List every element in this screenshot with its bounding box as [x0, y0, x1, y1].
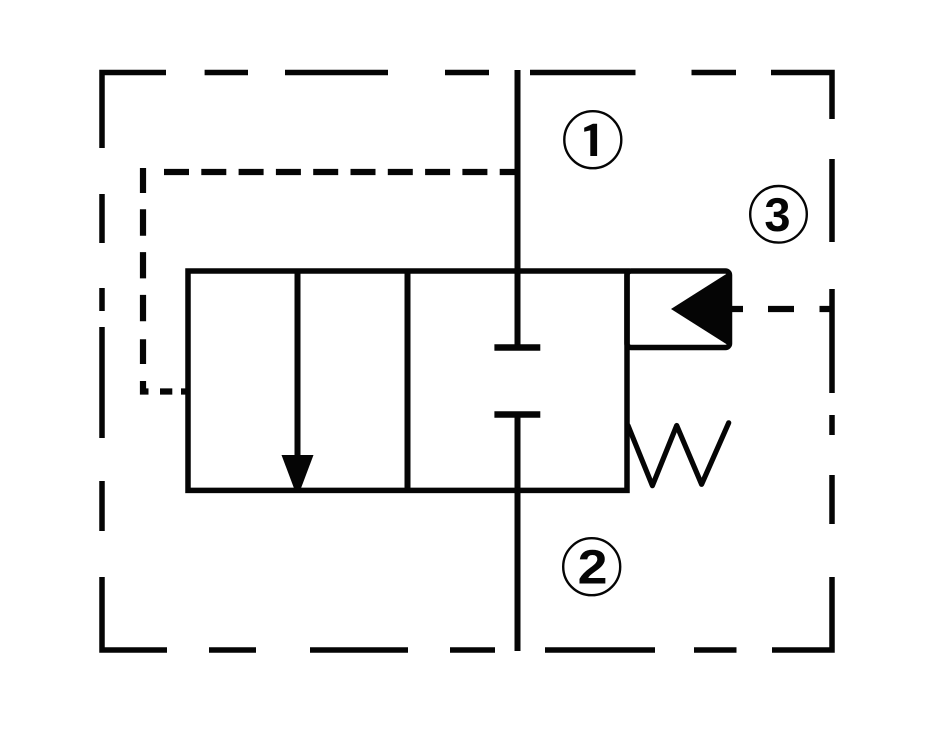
svg-text:3: 3	[764, 188, 790, 241]
valve body box (two positions)	[188, 271, 627, 490]
dashed border bottom side	[102, 577, 832, 650]
port 2 line	[515, 415, 521, 652]
flow arrow head	[282, 455, 314, 489]
position divider	[405, 271, 411, 490]
port 1 digit	[584, 124, 597, 156]
blocked port lower crossbar	[494, 411, 540, 418]
port 3 label circle	[750, 186, 807, 243]
blocked port upper crossbar	[494, 344, 540, 351]
port 2 label circle	[563, 538, 620, 595]
outer component boundary, dashed border top side	[102, 73, 832, 149]
pilot line vertical riser (dashed)	[140, 168, 146, 364]
pilot signal dashes right of actuator	[730, 306, 832, 312]
flow arrow shaft	[295, 271, 301, 457]
port 1 label circle	[564, 111, 621, 168]
dashed border left side	[99, 194, 105, 531]
port 1 line	[515, 70, 521, 345]
pilot actuator triangle	[671, 272, 730, 347]
pilot line lower stub (dashed) into valve box left side	[143, 381, 186, 392]
pilot line horizontal upper (dashed) from left riser to port 1 line	[164, 169, 518, 175]
svg-text:2: 2	[578, 540, 608, 594]
dashed border right side	[829, 159, 835, 524]
return spring	[628, 423, 729, 486]
pilot actuator box	[627, 271, 730, 348]
